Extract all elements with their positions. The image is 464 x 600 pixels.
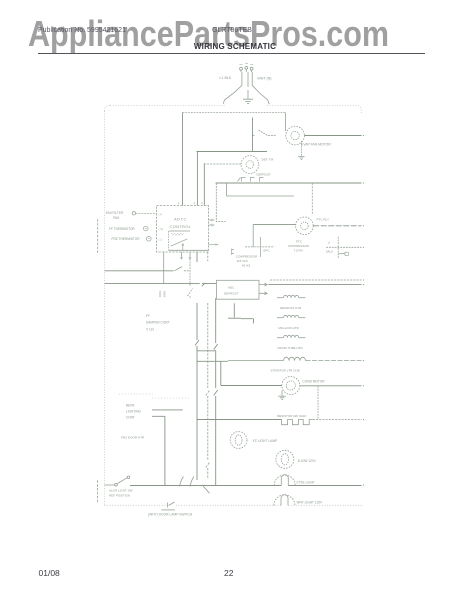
- svg-text:SALU: SALU: [326, 249, 333, 253]
- svg-text:DEFROST: DEFROST: [257, 173, 272, 177]
- svg-text:DEFROST HTR: DEFROST HTR: [280, 306, 302, 310]
- svg-text:ALGR LIGHT SW: ALGR LIGHT SW: [109, 489, 133, 493]
- publication number: [38, 27, 126, 34]
- connector: board bottom pins: [180, 252, 191, 259]
- svg-text:REFR: REFR: [126, 404, 135, 408]
- switch SW1 refrigerator light switch: [105, 476, 130, 486]
- wire: drop from bus C to compressor: [311, 183, 313, 215]
- label: freezer door: [121, 436, 145, 440]
- resistor R1 square-wave element: [282, 420, 313, 425]
- label: defrost heater: [280, 306, 302, 310]
- label: ADTC CONTROL: [170, 217, 192, 230]
- wire: stub bus H: [197, 350, 216, 352]
- label: EVAP FAN MOTOR: [301, 143, 331, 147]
- svg-text:MULLION HTR: MULLION HTR: [279, 326, 300, 330]
- connector: control board right pins: [209, 219, 219, 247]
- label: COND MOTOR: [303, 380, 326, 384]
- wire: long vertical bus LV4: [214, 298, 218, 485]
- wire: stub outside frame mid (shield): [97, 219, 99, 254]
- wire: long vertical bus LV3: [206, 252, 210, 479]
- svg-text:LIGHTING: LIGHTING: [126, 410, 142, 414]
- svg-text:DRAIN TUBE HTR: DRAIN TUBE HTR: [278, 346, 304, 350]
- svg-text:3: 3: [201, 201, 203, 205]
- label: WHT (N): [257, 76, 271, 80]
- label: BLK: [220, 76, 232, 80]
- svg-text:COND MOTOR: COND MOTOR: [303, 380, 326, 384]
- svg-text:U: U: [328, 241, 330, 245]
- lamp L4 white light on neutral bus: [274, 495, 295, 506]
- wire: drop to condenser fan: [221, 361, 282, 385]
- svg-text:V 110: V 110: [146, 328, 154, 332]
- ground: evap fan motor case: [298, 141, 304, 160]
- svg-text:ADC: ADC: [228, 286, 235, 290]
- motor M1 evap fan: [286, 126, 305, 145]
- contact: compressor terminal bracket: [232, 249, 234, 256]
- wire: stub outside frame bottom: [96, 480, 98, 503]
- svg-text:7.5 PH: 7.5 PH: [294, 249, 303, 253]
- svg-text:WHT LIGHT 120V: WHT LIGHT 120V: [297, 501, 324, 505]
- svg-text:EMI FILTER: EMI FILTER: [106, 211, 124, 215]
- svg-text:WHT (N): WHT (N): [257, 76, 271, 80]
- svg-text:FF: FF: [146, 314, 150, 318]
- svg-text:CONT: CONT: [126, 416, 135, 420]
- thermistor RT2 symbol: [147, 237, 152, 242]
- wire: bus E cold control: [105, 270, 174, 272]
- connector: block output arrows: [259, 283, 267, 295]
- svg-text:2: 2: [194, 201, 196, 205]
- lamp L3 control light: [274, 475, 295, 486]
- label: run capacitor: [326, 241, 333, 254]
- wire: bottom lamp bus: [130, 484, 364, 485]
- svg-text:BRN: BRN: [163, 291, 167, 297]
- thermistor RT1 symbol: [144, 226, 149, 231]
- connector block J2 (ADP): [217, 280, 260, 299]
- wire: lighting corner drop: [152, 416, 165, 485]
- label: refrigerator lighting control: [126, 404, 142, 420]
- wire: EMI filter to board: [132, 212, 156, 215]
- label: white wire to door switch: [148, 512, 193, 516]
- wire: bus A top feed: [183, 112, 286, 114]
- wire: bus C drop to control board: [216, 183, 225, 222]
- wire: timer to control board pin: [204, 163, 241, 205]
- wire: compressor feed line: [253, 223, 295, 225]
- wire: bottom bus (WHT neutral run): [105, 504, 363, 506]
- wire: bus C to neutral: [216, 182, 365, 183]
- watermark: [28, 16, 389, 52]
- label: resistor: [277, 414, 306, 418]
- svg-text:SUPPRESSOR: SUPPRESSOR: [288, 244, 310, 248]
- relay K1 inside control board: [169, 231, 209, 250]
- wire: compressor to neutral: [313, 225, 364, 226]
- label: stirator coil: [271, 369, 300, 373]
- thermistor RT2 freezer: [112, 237, 141, 241]
- label: white light: [297, 501, 324, 505]
- label: light switch: [109, 489, 133, 498]
- svg-text:COMPRESSOR: COMPRESSOR: [236, 255, 259, 259]
- heater H2 mullion heater: [277, 315, 305, 317]
- heater H4 stirator coil: [228, 357, 364, 361]
- wire: long vertical bus LV2: [195, 252, 199, 480]
- defrost timer DT1: [241, 156, 259, 174]
- label: DEFROST: [257, 173, 272, 177]
- wire: resistor to neutral: [313, 419, 364, 420]
- plug P1 power cord prongs: [240, 64, 254, 72]
- wire: plug right leg (WHT): [252, 72, 269, 104]
- switch: evap fan switch: [253, 130, 277, 136]
- wire: bus B defrost feed: [197, 151, 268, 153]
- wire: drop to evap fan: [285, 113, 287, 132]
- svg-text:FZ LIGHT LAMP: FZ LIGHT LAMP: [253, 439, 278, 443]
- label: EPC: [264, 249, 271, 253]
- svg-text:PTC: PTC: [296, 240, 303, 244]
- wire: bus F main lower feed: [105, 283, 217, 286]
- wire: bus D jumper: [227, 195, 295, 197]
- svg-text:PAD: PAD: [113, 216, 120, 220]
- label: freezer light lamp: [253, 439, 278, 443]
- wire: outer frame top-right segment (neutral): [267, 106, 362, 115]
- contact: defrost timer contacts: [238, 178, 264, 182]
- wire: bus C to bus D connector: [226, 183, 228, 196]
- wire: cabinet boundary dashes: [119, 394, 190, 398]
- model number: [212, 27, 252, 34]
- svg-text:ORG: ORG: [158, 291, 162, 297]
- svg-text:( 1): ( 1): [159, 227, 163, 231]
- svg-text:L1 BLK: L1 BLK: [220, 76, 232, 80]
- wire: defrost heater bus to neutral: [270, 279, 364, 280]
- svg-text:( V: ( V: [159, 213, 163, 217]
- component: EMI filter: [106, 211, 124, 220]
- footer date: [39, 568, 60, 578]
- svg-text:FRZ THERMISTOR: FRZ THERMISTOR: [112, 237, 141, 241]
- wire: board pin drop left: [163, 252, 165, 284]
- wire: compressor start circuit drop: [252, 224, 254, 247]
- label: FF damper control: [146, 314, 170, 332]
- label: connector block: [224, 286, 239, 296]
- wire: evap fan to neutral: [305, 135, 365, 136]
- wire: defrost sense line with switch: [188, 259, 193, 299]
- wire: vertical feed to control board pin 1: [182, 113, 184, 206]
- label: lamp rating: [298, 459, 317, 463]
- lamp L2 refrigerator light: [276, 450, 294, 468]
- contact: cold control switch: [175, 267, 191, 271]
- capacitor C1 run capacitor cross: [326, 237, 364, 258]
- label: wire colors ORG BRN (rotated): [158, 291, 167, 297]
- label: PTC SUPPRESSOR 7.5 PH: [288, 240, 310, 253]
- svg-text:CONTROL: CONTROL: [170, 224, 192, 229]
- svg-text:60 HZ: 60 HZ: [242, 263, 250, 267]
- label: drain heater: [278, 346, 304, 350]
- control board U1 (ADTC CONTROL): [157, 206, 209, 253]
- wire: outer frame left side: [104, 111, 106, 506]
- heater H3 drain heater: [277, 335, 305, 337]
- ground: mid chassis ground: [228, 303, 254, 323]
- footer page number: [224, 568, 233, 578]
- svg-text:DEFROST: DEFROST: [224, 292, 239, 296]
- ground: condenser fan motor: [278, 391, 286, 400]
- svg-text:(WHT) DOOR LAMP SWITCH: (WHT) DOOR LAMP SWITCH: [148, 512, 193, 516]
- heater H1 defrost heater: [277, 295, 305, 297]
- wire: plug left leg (BLK): [223, 72, 242, 104]
- thermistor RT1 fresh food: [109, 227, 135, 231]
- svg-text:DEF. TM: DEF. TM: [262, 158, 274, 162]
- svg-text:CTRL LIGHT: CTRL LIGHT: [296, 481, 315, 485]
- label: control light: [296, 481, 315, 485]
- svg-text:EPC: EPC: [264, 249, 271, 253]
- wire: heater return line to neutral: [269, 284, 365, 285]
- svg-text:1: 1: [178, 201, 180, 205]
- label: compressor ratings: [236, 255, 259, 268]
- wire: resistor bus: [197, 419, 282, 421]
- sheet title: [3, 42, 464, 51]
- svg-text:DAMPER CONT: DAMPER CONT: [146, 321, 170, 325]
- ground: plug earth pin: [243, 72, 253, 104]
- svg-text:RESISTOR 920 OHM: RESISTOR 920 OHM: [277, 414, 306, 418]
- lamp L1 freezer light: [230, 432, 247, 449]
- label: mullion heater: [279, 326, 300, 330]
- wire: outer frame top-left segment (L1 black supply): [105, 106, 226, 112]
- title rule: [38, 53, 425, 54]
- svg-text:STIRATOR LTR COE: STIRATOR LTR COE: [271, 369, 300, 373]
- wire: start circuit horizontal: [245, 246, 274, 248]
- svg-text:ADTC: ADTC: [174, 217, 187, 222]
- svg-text:B 40W 120V: B 40W 120V: [298, 459, 317, 463]
- label: PTC RLY: [317, 218, 329, 222]
- svg-text:FRZ DOOR HTR: FRZ DOOR HTR: [121, 436, 145, 440]
- wire: vertical from plug area through bus B down to compressor line: [252, 118, 254, 152]
- svg-text:PTC RLY: PTC RLY: [317, 218, 329, 222]
- wire: bus B drop to control board pin 2: [196, 152, 198, 206]
- compressor COMP1: [296, 217, 314, 235]
- svg-text:FF THERMISTOR: FF THERMISTOR: [109, 227, 135, 231]
- label: DEF TIMER: [262, 158, 274, 162]
- wire: resistor branch drop: [317, 386, 319, 420]
- svg-text:( 1: ( 1: [159, 237, 163, 241]
- contact: door switch on bottom bus: [161, 502, 175, 510]
- wire: lighting control feed: [152, 409, 183, 411]
- wire: condenser fan to neutral: [300, 385, 364, 386]
- wire: stub bus I: [197, 360, 229, 362]
- svg-text:REF POSITION: REF POSITION: [109, 493, 130, 497]
- label: control board pin marks: [159, 201, 204, 241]
- wire: start circuit tick: [260, 237, 262, 257]
- svg-text:EVAP FAN MOTOR: EVAP FAN MOTOR: [301, 143, 331, 147]
- motor M2 condenser fan: [282, 377, 300, 395]
- contact: door switch marks on lamp bus: [180, 477, 210, 494]
